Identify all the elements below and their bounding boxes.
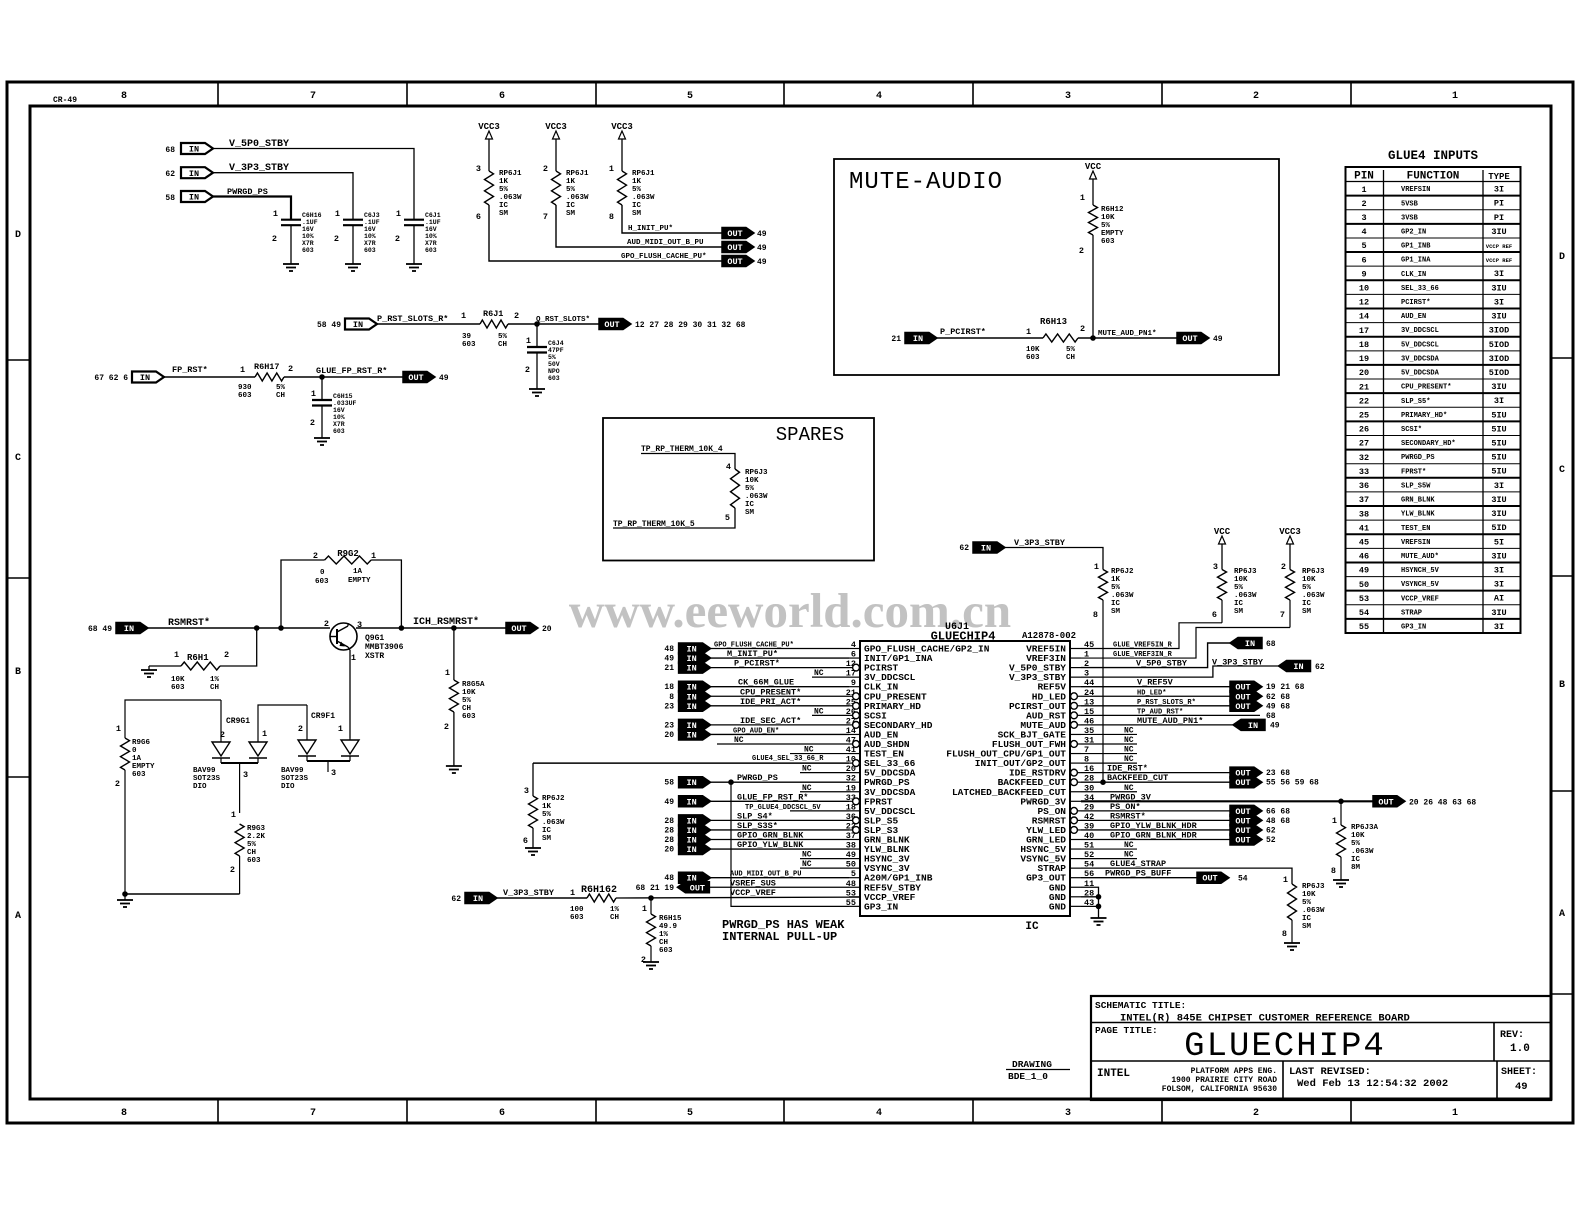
svg-text:55 56 59 68: 55 56 59 68: [1266, 779, 1319, 788]
resistor R6H12: [1079, 193, 1124, 256]
svg-text:1%: 1%: [610, 906, 620, 914]
svg-text:54: 54: [1359, 608, 1369, 618]
svg-text:62: 62: [1315, 663, 1325, 672]
MUTE-AUDIO block: [834, 159, 1279, 375]
svg-text:48 68: 48 68: [1266, 817, 1290, 826]
svg-text:EMPTY: EMPTY: [1101, 230, 1124, 238]
svg-text:68 49: 68 49: [88, 625, 112, 634]
svg-text:IN: IN: [140, 373, 150, 383]
svg-text:2.2K: 2.2K: [247, 833, 266, 841]
node CPU_PRESENT* input: [669, 687, 849, 702]
svg-text:3IU: 3IU: [1491, 283, 1506, 293]
svg-text:20: 20: [1359, 368, 1369, 378]
svg-text:CR9G1: CR9G1: [226, 717, 250, 726]
svg-text:Wed Feb 13 12:54:32 2002: Wed Feb 13 12:54:32 2002: [1297, 1078, 1448, 1090]
svg-text:3: 3: [524, 786, 529, 796]
svg-text:10K: 10K: [462, 689, 476, 697]
svg-text:10%: 10%: [333, 414, 345, 421]
svg-text:B: B: [15, 667, 21, 678]
ground under R6H1: [141, 670, 157, 677]
wire TP_RP_THERM_10K_4: [641, 445, 735, 469]
svg-text:25: 25: [1359, 411, 1369, 421]
svg-text:.1UF: .1UF: [425, 219, 441, 226]
svg-text:3IU: 3IU: [1491, 312, 1506, 322]
svg-text:49: 49: [1359, 566, 1369, 576]
svg-text:8: 8: [121, 91, 127, 102]
svg-text:IN: IN: [686, 778, 696, 788]
svg-text:28: 28: [664, 836, 674, 845]
svg-text:3IOD: 3IOD: [1489, 326, 1509, 336]
svg-text:R9G2: R9G2: [337, 549, 359, 559]
svg-text:8: 8: [1093, 610, 1098, 620]
svg-text:2: 2: [224, 650, 229, 660]
node PWRGD_PS input (ic): [664, 773, 849, 788]
svg-text:3I: 3I: [1494, 269, 1504, 279]
svg-text:IN: IN: [353, 320, 363, 330]
svg-text:RP6J1: RP6J1: [566, 170, 589, 178]
svg-text:1A: 1A: [353, 568, 363, 576]
svg-text:2: 2: [313, 551, 318, 561]
svg-text:VCCP_VREF: VCCP_VREF: [730, 888, 776, 898]
svg-text:62: 62: [1266, 826, 1276, 835]
node IDE_SEC_ACT* input: [664, 716, 849, 731]
svg-text:DRAWING: DRAWING: [1012, 1059, 1052, 1070]
svg-text:20: 20: [664, 846, 674, 855]
svg-text:603: 603: [548, 375, 560, 382]
svg-text:930: 930: [238, 384, 252, 392]
svg-text:55: 55: [1359, 622, 1369, 632]
svg-text:V_3P3_STBY: V_3P3_STBY: [1014, 538, 1066, 548]
svg-text:CH: CH: [1066, 354, 1075, 362]
svg-text:GLUE4 INPUTS: GLUE4 INPUTS: [1388, 149, 1479, 163]
svg-text:GLUECHIP4: GLUECHIP4: [1184, 1028, 1386, 1066]
svg-text:P_PCIRST*: P_PCIRST*: [940, 327, 986, 337]
svg-text:IN: IN: [1293, 662, 1303, 672]
svg-text:49: 49: [757, 258, 767, 267]
svg-text:8: 8: [1331, 866, 1336, 876]
node IDE_PRI_ACT* input: [664, 697, 849, 712]
svg-text:IC: IC: [1302, 600, 1312, 608]
wire V_3P3_STBY: [213, 173, 353, 220]
svg-text:.063W: .063W: [566, 194, 589, 202]
svg-text:R6H17: R6H17: [254, 362, 280, 372]
svg-text:5: 5: [1361, 241, 1366, 251]
resistor R6H13: [1026, 317, 1085, 362]
wire P_RST_SLOTS_R*: [377, 323, 480, 325]
svg-text:5%: 5%: [499, 186, 509, 194]
svg-text:1: 1: [396, 209, 401, 219]
wire GLUE_VREF5IN_R: [1081, 623, 1222, 650]
svg-text:603: 603: [1026, 354, 1040, 362]
svg-text:M_INIT_PU*: M_INIT_PU*: [727, 649, 778, 659]
svg-text:23 68: 23 68: [1266, 769, 1290, 778]
svg-text:P_RST_SLOTS_R*: P_RST_SLOTS_R*: [1137, 699, 1196, 707]
svg-text:1: 1: [461, 311, 466, 321]
svg-text:GP2_IN: GP2_IN: [1401, 228, 1426, 236]
resistor R9G2: [281, 549, 401, 628]
svg-text:IDE_RST*: IDE_RST*: [1107, 764, 1148, 774]
svg-text:SCHEMATIC TITLE:: SCHEMATIC TITLE:: [1095, 1000, 1186, 1011]
svg-text:3IU: 3IU: [1491, 227, 1506, 237]
svg-text:5%: 5%: [745, 485, 755, 493]
svg-text:IN: IN: [189, 145, 199, 155]
svg-text:CH: CH: [659, 939, 668, 947]
svg-text:5IU: 5IU: [1491, 424, 1506, 434]
resistor RP6J1 (1/8): [609, 164, 655, 222]
svg-text:5%: 5%: [542, 811, 552, 819]
svg-text:GLUE_FP_RST_R*: GLUE_FP_RST_R*: [316, 366, 387, 376]
svg-text:GP1_INB: GP1_INB: [1401, 243, 1431, 251]
node M_INIT_PU* input: [664, 649, 849, 664]
svg-text:VSYNCH_5V: VSYNCH_5V: [1401, 581, 1440, 589]
svg-text:6: 6: [1361, 255, 1366, 265]
svg-text:2: 2: [334, 234, 339, 244]
svg-text:1: 1: [174, 650, 179, 660]
svg-text:6: 6: [523, 836, 528, 846]
svg-text:NC: NC: [734, 736, 744, 745]
svg-text:3I: 3I: [1494, 481, 1504, 491]
svg-text:RP6J1: RP6J1: [499, 170, 522, 178]
svg-text:MUTE_AUD_PN1*: MUTE_AUD_PN1*: [1137, 716, 1203, 726]
node GPO_FLUSH_CACHE_PU* output: [722, 256, 767, 268]
svg-text:5%: 5%: [247, 841, 257, 849]
svg-text:NPO: NPO: [548, 368, 560, 375]
svg-text:.063W: .063W: [745, 493, 768, 501]
resistor RP6J2 (pulldown): [523, 763, 565, 848]
svg-text:FOLSOM, CALIFORNIA 95630: FOLSOM, CALIFORNIA 95630: [1162, 1085, 1277, 1094]
svg-text:.063W: .063W: [1302, 592, 1325, 600]
svg-text:3: 3: [243, 770, 248, 780]
svg-text:INTEL: INTEL: [1097, 1068, 1130, 1080]
svg-text:5VSB: 5VSB: [1401, 200, 1419, 208]
svg-text:HSYNCH_5V: HSYNCH_5V: [1401, 567, 1440, 575]
svg-text:IC: IC: [632, 202, 642, 210]
svg-text:5%: 5%: [632, 186, 642, 194]
svg-text:SM: SM: [499, 210, 509, 218]
svg-text:1: 1: [335, 209, 340, 219]
wire emitter to diodes: [349, 650, 351, 738]
svg-text:SM: SM: [745, 509, 755, 517]
svg-text:1: 1: [609, 164, 614, 174]
svg-text:20 26 48 63 68: 20 26 48 63 68: [1409, 798, 1476, 807]
svg-text:10%: 10%: [364, 233, 376, 240]
svg-text:PWRGD_PS: PWRGD_PS: [737, 773, 778, 783]
right NC stubs: [1081, 726, 1137, 859]
svg-text:1: 1: [526, 336, 531, 346]
svg-text:603: 603: [570, 914, 584, 922]
svg-text:8M: 8M: [1351, 864, 1361, 872]
svg-text:8: 8: [609, 212, 614, 222]
resistor RP6J1 (2/7): [543, 164, 589, 222]
svg-text:IN: IN: [686, 730, 696, 740]
svg-text:16V: 16V: [425, 226, 437, 233]
wire PWRGD_PS branch to GP3_IN: [728, 779, 849, 906]
svg-text:SHEET:: SHEET:: [1501, 1067, 1537, 1078]
svg-text:3IU: 3IU: [1491, 608, 1506, 618]
svg-text:EMPTY: EMPTY: [132, 763, 155, 771]
drawing label: [1006, 1059, 1070, 1082]
svg-text:41: 41: [1359, 523, 1369, 533]
svg-text:RP6J3: RP6J3: [1234, 568, 1257, 576]
svg-text:DIO: DIO: [193, 783, 207, 791]
svg-text:23: 23: [664, 721, 674, 730]
svg-text:5IOD: 5IOD: [1489, 368, 1509, 378]
resistor R6J1: [461, 309, 519, 349]
wire/node IDE_RST* output: [1081, 764, 1290, 779]
svg-text:3I: 3I: [1494, 185, 1504, 195]
svg-text:R6J1: R6J1: [483, 309, 503, 319]
capacitor C6J3: [334, 209, 380, 264]
node SLP_S3S* input: [664, 821, 849, 836]
wire R6H12 to node: [1092, 235, 1094, 338]
svg-text:SM: SM: [566, 210, 576, 218]
svg-text:OUT: OUT: [690, 883, 705, 893]
wire Q_RST_SLOTS*: [508, 316, 599, 327]
svg-text:7: 7: [1280, 610, 1285, 620]
svg-text:50: 50: [1359, 580, 1369, 590]
svg-text:RSMRST*: RSMRST*: [1110, 811, 1146, 821]
svg-text:603: 603: [333, 428, 345, 435]
capacitor C6H16: [272, 209, 322, 264]
svg-text:3: 3: [1213, 562, 1218, 572]
svg-text:68 21 19: 68 21 19: [636, 884, 675, 893]
svg-text:INTERNAL PULL-UP: INTERNAL PULL-UP: [722, 930, 837, 944]
svg-text:20: 20: [542, 625, 552, 634]
svg-text:19: 19: [1359, 354, 1369, 364]
svg-text:2: 2: [444, 722, 449, 732]
svg-text:10%: 10%: [302, 233, 314, 240]
svg-text:OUT: OUT: [1378, 797, 1393, 807]
svg-text:.1UF: .1UF: [302, 219, 318, 226]
svg-text:22: 22: [1359, 396, 1369, 406]
svg-text:1: 1: [1094, 562, 1099, 572]
svg-text:49: 49: [664, 798, 674, 807]
svg-text:TYPE: TYPE: [1488, 172, 1510, 182]
svg-text:IN: IN: [913, 334, 923, 344]
svg-text:7: 7: [310, 91, 316, 102]
svg-text:NC: NC: [802, 765, 812, 774]
node MUTE_AUD_PN1* input (right): [1081, 716, 1280, 731]
svg-text:36: 36: [1359, 481, 1369, 491]
svg-text:.1UF: .1UF: [364, 219, 380, 226]
svg-text:SOT23S: SOT23S: [281, 775, 309, 783]
svg-text:10K: 10K: [1234, 576, 1248, 584]
svg-text:BAV99: BAV99: [281, 767, 304, 775]
svg-text:NC: NC: [1124, 726, 1134, 735]
svg-text:IC: IC: [1234, 600, 1244, 608]
svg-text:5IU: 5IU: [1491, 467, 1506, 477]
svg-text:2: 2: [310, 418, 315, 428]
resistor R6H1: [149, 628, 257, 692]
svg-text:33: 33: [1359, 467, 1369, 477]
ground under C6J3: [345, 264, 361, 271]
svg-text:1: 1: [1332, 816, 1337, 826]
svg-text:NC: NC: [802, 784, 812, 793]
svg-text:NC: NC: [1124, 755, 1134, 764]
svg-text:R9G3: R9G3: [247, 825, 266, 833]
svg-text:PAGE TITLE:: PAGE TITLE:: [1095, 1025, 1158, 1036]
svg-text:5V_DDCSCL: 5V_DDCSCL: [1401, 341, 1439, 349]
svg-text:OUT: OUT: [727, 229, 742, 239]
svg-text:8: 8: [1282, 929, 1287, 939]
svg-text:IN: IN: [1248, 721, 1258, 731]
svg-text:IDE_PRI_ACT*: IDE_PRI_ACT*: [740, 697, 801, 707]
svg-text:BAV99: BAV99: [193, 767, 216, 775]
node MUTE_AUD_PN1* output: [1177, 333, 1223, 345]
svg-text:6: 6: [499, 1108, 505, 1119]
ground under R8G5A: [446, 766, 462, 773]
svg-text:54: 54: [1238, 875, 1248, 884]
svg-text:6: 6: [499, 91, 505, 102]
svg-text:IC: IC: [566, 202, 576, 210]
svg-text:58: 58: [664, 779, 674, 788]
svg-text:RP6J2: RP6J2: [542, 795, 565, 803]
ground under strap RP6J3: [1284, 943, 1300, 950]
wire GLUE_FP_RST_R*: [284, 366, 403, 380]
svg-text:5%: 5%: [566, 186, 576, 194]
svg-text:58 49: 58 49: [317, 321, 341, 330]
svg-text:RP6J1: RP6J1: [632, 170, 655, 178]
svg-text:IC: IC: [542, 827, 552, 835]
svg-text:1: 1: [1452, 1108, 1458, 1119]
svg-text:48: 48: [664, 645, 674, 654]
node GPO_AUD_EN* input: [664, 727, 849, 740]
diode CR9G1: [193, 700, 307, 813]
svg-text:PLATFORM APPS ENG.: PLATFORM APPS ENG.: [1191, 1067, 1277, 1076]
svg-text:1: 1: [273, 209, 278, 219]
svg-text:PS_ON*: PS_ON*: [1110, 802, 1141, 812]
svg-text:58: 58: [165, 194, 175, 203]
svg-text:603: 603: [462, 713, 476, 721]
svg-text:28: 28: [664, 817, 674, 826]
svg-text:4: 4: [876, 1108, 882, 1119]
node AUD_MIDI_OUT_B_PU output: [722, 242, 767, 254]
svg-text:1K: 1K: [542, 803, 552, 811]
node Q_RST_SLOTS* output: [599, 319, 746, 331]
svg-text:INTEL(R) 845E CHIPSET CUSTOMER: INTEL(R) 845E CHIPSET CUSTOMER REFERENCE…: [1120, 1013, 1410, 1025]
svg-text:66 68: 66 68: [1266, 807, 1290, 816]
svg-text:PRIMARY_HD*: PRIMARY_HD*: [1401, 412, 1447, 420]
svg-text:STRAP: STRAP: [1401, 609, 1422, 617]
svg-text:ICH_RSMRST*: ICH_RSMRST*: [413, 616, 479, 628]
node ICH_RSMRST* output: [506, 623, 552, 635]
svg-text:OUT: OUT: [604, 320, 619, 330]
svg-text:GP3_IN: GP3_IN: [1401, 624, 1426, 632]
svg-text:1: 1: [116, 724, 121, 734]
svg-text:R9G6: R9G6: [132, 739, 151, 747]
svg-text:GLUE4_SEL_33_66_R: GLUE4_SEL_33_66_R: [752, 755, 824, 763]
svg-text:SM: SM: [1234, 608, 1244, 616]
svg-text:21: 21: [664, 664, 674, 673]
svg-text:16V: 16V: [333, 407, 345, 414]
node V_3P3_STBY input (bottom): [451, 888, 555, 904]
svg-text:RP6J2: RP6J2: [1111, 568, 1134, 576]
svg-text:CR9F1: CR9F1: [311, 712, 335, 721]
resistor RP6J3 (strap pulldown): [1282, 875, 1325, 943]
svg-text:0: 0: [132, 747, 137, 755]
svg-text:5%: 5%: [1111, 584, 1121, 592]
svg-text:1: 1: [1361, 185, 1366, 195]
svg-text:4: 4: [851, 640, 856, 650]
node GPIO_GRN_BLNK input: [664, 831, 849, 846]
capacitor C6J4: [525, 324, 564, 389]
svg-text:8: 8: [669, 693, 674, 702]
op-amp U6J1 GLUECHIP4 (IC body): [860, 622, 1076, 933]
svg-text:RSMRST*: RSMRST*: [168, 617, 210, 629]
svg-text:CH: CH: [210, 684, 219, 692]
svg-text:CH: CH: [247, 849, 256, 857]
svg-text:MUTE_AUD_PN1*: MUTE_AUD_PN1*: [1098, 330, 1157, 338]
svg-text:SM: SM: [1302, 923, 1312, 931]
svg-text:NC: NC: [802, 860, 812, 869]
svg-text:.063W: .063W: [542, 819, 565, 827]
svg-text:SM: SM: [632, 210, 642, 218]
svg-text:SCSI*: SCSI*: [1401, 426, 1422, 434]
svg-text:5IU: 5IU: [1491, 410, 1506, 420]
svg-text:DIO: DIO: [281, 783, 295, 791]
node P_RST_SLOTS_R* input: [317, 314, 448, 330]
svg-text:IN: IN: [981, 544, 991, 554]
svg-text:100: 100: [570, 906, 584, 914]
svg-text:C6J3: C6J3: [364, 212, 380, 219]
svg-text:LAST REVISED:: LAST REVISED:: [1289, 1066, 1371, 1078]
wire FP_RST*: [164, 376, 255, 378]
resistor R8G5A: [444, 628, 485, 766]
svg-text:1: 1: [231, 810, 236, 820]
svg-text:NC: NC: [802, 851, 812, 860]
svg-text:49.9: 49.9: [659, 923, 678, 931]
svg-text:CH: CH: [498, 341, 507, 349]
svg-text:7: 7: [543, 212, 548, 222]
svg-text:603: 603: [302, 247, 314, 254]
svg-text:2: 2: [1281, 562, 1286, 572]
svg-text:5%: 5%: [1101, 222, 1111, 230]
svg-text:CH: CH: [276, 392, 285, 400]
svg-text:4: 4: [1361, 227, 1366, 237]
svg-text:3I: 3I: [1494, 566, 1504, 576]
svg-text:2: 2: [288, 364, 293, 374]
svg-text:R6H15: R6H15: [659, 915, 682, 923]
svg-text:26: 26: [1359, 425, 1369, 435]
svg-text:GPO_FLUSH_CACHE_PU*: GPO_FLUSH_CACHE_PU*: [621, 253, 707, 261]
svg-text:RP6J3A: RP6J3A: [1351, 824, 1379, 832]
svg-text:6: 6: [476, 212, 481, 222]
wire MUTE_AUD_PN1*: [1078, 330, 1177, 341]
svg-text:FP_RST*: FP_RST*: [172, 365, 208, 375]
svg-text:IC: IC: [745, 501, 755, 509]
ground under C6H15: [314, 438, 330, 445]
svg-text:49 68: 49 68: [1266, 702, 1290, 711]
svg-text:OUT: OUT: [1202, 874, 1217, 884]
wire/node PS_ON* output: [1081, 802, 1290, 817]
svg-text:SPARES: SPARES: [776, 424, 844, 446]
svg-text:1K: 1K: [566, 178, 576, 186]
svg-text:.063W: .063W: [499, 194, 522, 202]
svg-text:2: 2: [298, 724, 303, 734]
power VCC3 at x556: [545, 122, 567, 171]
svg-text:MUTE_AUD*: MUTE_AUD*: [1401, 553, 1439, 561]
svg-text:1: 1: [642, 904, 647, 914]
svg-text:16V: 16V: [364, 226, 376, 233]
svg-text:.033UF: .033UF: [333, 400, 357, 407]
svg-text:603: 603: [238, 392, 252, 400]
svg-text:X7R: X7R: [333, 421, 345, 428]
svg-text:AUD_EN: AUD_EN: [1401, 313, 1426, 321]
svg-text:C: C: [1559, 465, 1565, 476]
svg-text:2: 2: [641, 955, 646, 965]
svg-text:IN: IN: [686, 664, 696, 674]
svg-text:IN: IN: [686, 797, 696, 807]
